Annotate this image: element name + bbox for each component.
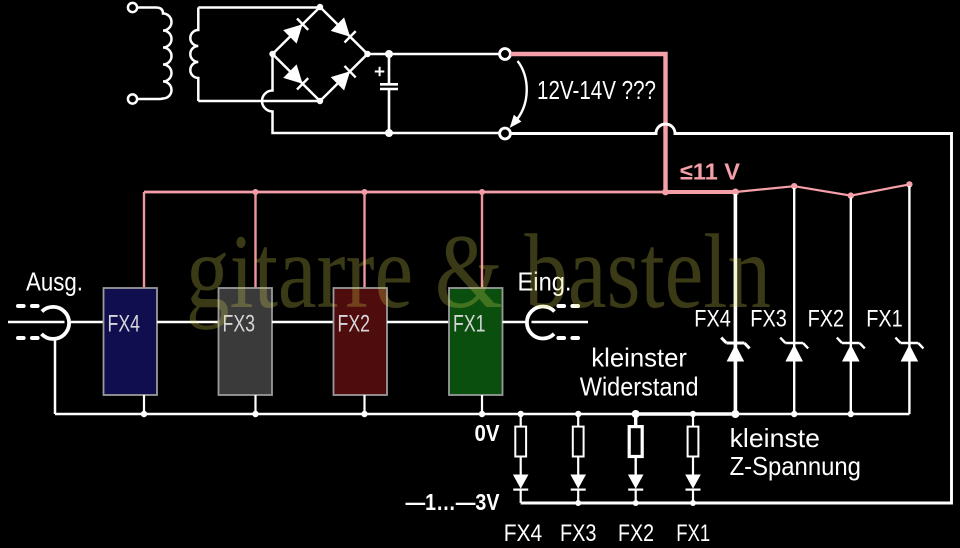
svg-text:≤11 V: ≤11 V — [680, 159, 741, 185]
resistor R4 branch junction — [518, 411, 524, 417]
node pink bus FX2 junction — [362, 189, 368, 195]
node bridge right junction — [364, 51, 370, 57]
node 0V rail FX1 junction — [479, 411, 485, 417]
svg-text:kleinster: kleinster — [591, 343, 687, 373]
wire pink supply feed from plus terminal — [511, 54, 666, 192]
zener diode Z4 (FX4, kleinste Z-Spannung, thick) — [721, 194, 749, 414]
transformer T1 primary terminal top — [128, 3, 137, 12]
svg-text:gitarre & basteln: gitarre & basteln — [186, 213, 771, 330]
bridge diode D4 (bottom-right arm) — [331, 66, 356, 91]
resistor R1 — [688, 414, 699, 475]
diode D8 (FX1 branch) — [685, 475, 701, 504]
svg-text:FX1: FX1 — [866, 306, 903, 333]
wire FX2 box to 0V rail — [363, 395, 365, 414]
wire 0V rail — [55, 413, 909, 416]
bridge diode D2 (top-right arm) — [331, 17, 356, 42]
wire pink drop to FX3 box — [254, 192, 256, 288]
node 0V rail zener FX2 junction — [848, 411, 854, 417]
wire 0V rail thick segment — [636, 412, 736, 416]
svg-text:FX3: FX3 — [560, 520, 597, 547]
svg-text:kleinste: kleinste — [730, 423, 820, 453]
node pink bus FX3 junction — [253, 189, 259, 195]
diode D7 (FX2 branch) — [628, 475, 644, 504]
svg-text:FX4: FX4 — [504, 520, 543, 547]
wire pink drop to FX2 box — [363, 192, 365, 288]
effect box FX4 — [104, 288, 158, 395]
node -1V rail R2 junction — [633, 500, 639, 506]
resistor R2 branch junction (kleinster Widerstand) — [632, 410, 640, 418]
transformer T1 primary winding — [137, 8, 171, 100]
node bridge top junction — [317, 4, 323, 10]
jack plug Ausg. — [8, 306, 69, 339]
jack plug Eing. — [527, 306, 588, 338]
node bridge bottom junction — [317, 98, 323, 104]
transformer T1 secondary winding — [190, 8, 198, 102]
svg-text:12V-14V ???: 12V-14V ??? — [537, 75, 656, 105]
wire FX4 to FX3 — [157, 321, 219, 324]
label kleinste Z-Spannung — [730, 423, 861, 481]
wire bridge left node down with hop to negative rail — [262, 54, 500, 133]
resistor R3 — [573, 414, 584, 475]
wire minus terminal to right edge with hop over pink feed — [511, 124, 952, 503]
effect box FX3 — [219, 288, 273, 395]
wire pink supply bus thick segment — [666, 190, 736, 194]
svg-text:Z-Spannung: Z-Spannung — [730, 451, 861, 481]
node pink bus FX1 junction — [479, 189, 485, 195]
transformer T1 primary terminal bottom — [128, 94, 137, 103]
label kleinster Widerstand — [580, 343, 699, 402]
diode D5 (FX4 branch) — [513, 475, 529, 504]
bridge diode D3 (left-bottom arm) — [283, 64, 308, 89]
effect box FX1 — [449, 288, 503, 395]
wire pink zigzag to zener tops — [735, 184, 909, 195]
svg-text:Widerstand: Widerstand — [580, 372, 699, 402]
arrow 12V-14V measurement — [510, 61, 527, 128]
svg-text:FX2: FX2 — [808, 306, 845, 333]
node -1V rail R3 junction — [575, 500, 581, 506]
wire secondary top to bridge top — [198, 6, 320, 9]
svg-text:FX2: FX2 — [618, 520, 654, 547]
wire bridge right node to plus terminal — [368, 53, 500, 56]
resistor R1 branch junction — [690, 411, 696, 417]
wire FX3 box to 0V rail — [254, 395, 256, 414]
wire pink supply bus — [144, 191, 666, 194]
diode D6 (FX3 branch) — [570, 475, 586, 504]
node pink zigzag zener FX1 junction — [906, 181, 912, 187]
node 0V rail FX4 junction — [141, 411, 147, 417]
node pink bus zener FX4 junction — [732, 189, 739, 196]
wire secondary bottom to bridge bottom — [198, 100, 320, 103]
node bridge left junction — [269, 51, 275, 57]
node -1V rail R1 junction — [690, 500, 696, 506]
wire Ausg jack to FX4 — [71, 321, 104, 324]
wire pink drop to FX4 box — [143, 192, 145, 288]
node capacitor top junction — [385, 50, 393, 58]
node 0V rail zener FX3 junction — [791, 411, 797, 417]
node pink zigzag zener FX2 junction — [848, 192, 854, 198]
wire FX4 box to 0V rail — [143, 395, 145, 414]
resistor R4 — [515, 414, 526, 475]
node 0V rail zener FX4 junction — [731, 410, 739, 418]
wire pink drop to FX1 box — [481, 192, 483, 288]
bridge diode D1 (left-top arm) — [283, 19, 308, 44]
node pink zigzag zener FX3 junction — [791, 183, 797, 189]
node 0V rail FX3 junction — [252, 411, 258, 417]
svg-text:FX1: FX1 — [676, 520, 710, 547]
svg-text:—1…—3V: —1…—3V — [406, 489, 501, 515]
zener diode Z3 (FX3) — [780, 188, 808, 414]
resistor R3 branch junction — [575, 411, 581, 417]
wire FX1 box to 0V rail — [481, 395, 483, 414]
zener diode Z2 (FX2) — [837, 198, 865, 415]
node capacitor bottom junction — [385, 129, 393, 137]
resistor R2 (kleinster Widerstand, thick) — [629, 414, 642, 475]
svg-text:0V: 0V — [475, 420, 501, 446]
capacitor C1 plus sign — [375, 67, 385, 76]
wire FX3 to FX2 — [272, 321, 334, 324]
svg-text:Ausg.: Ausg. — [26, 267, 83, 297]
svg-text:FX4: FX4 — [108, 311, 141, 338]
capacitor C1 — [380, 54, 398, 133]
node 0V rail FX2 junction — [361, 411, 367, 417]
bridge rectifier frame — [273, 7, 368, 101]
wire Ausg jack sleeve down to 0V rail — [54, 338, 57, 414]
terminal minus output — [500, 128, 511, 139]
wire FX2 to FX1 — [387, 321, 449, 324]
terminal plus output — [500, 49, 511, 60]
zener diode Z1 (FX1) — [895, 186, 923, 414]
wire FX1 to Eing jack — [503, 321, 526, 324]
effect box FX2 — [334, 288, 388, 395]
node pink feed corner junction — [662, 189, 669, 196]
